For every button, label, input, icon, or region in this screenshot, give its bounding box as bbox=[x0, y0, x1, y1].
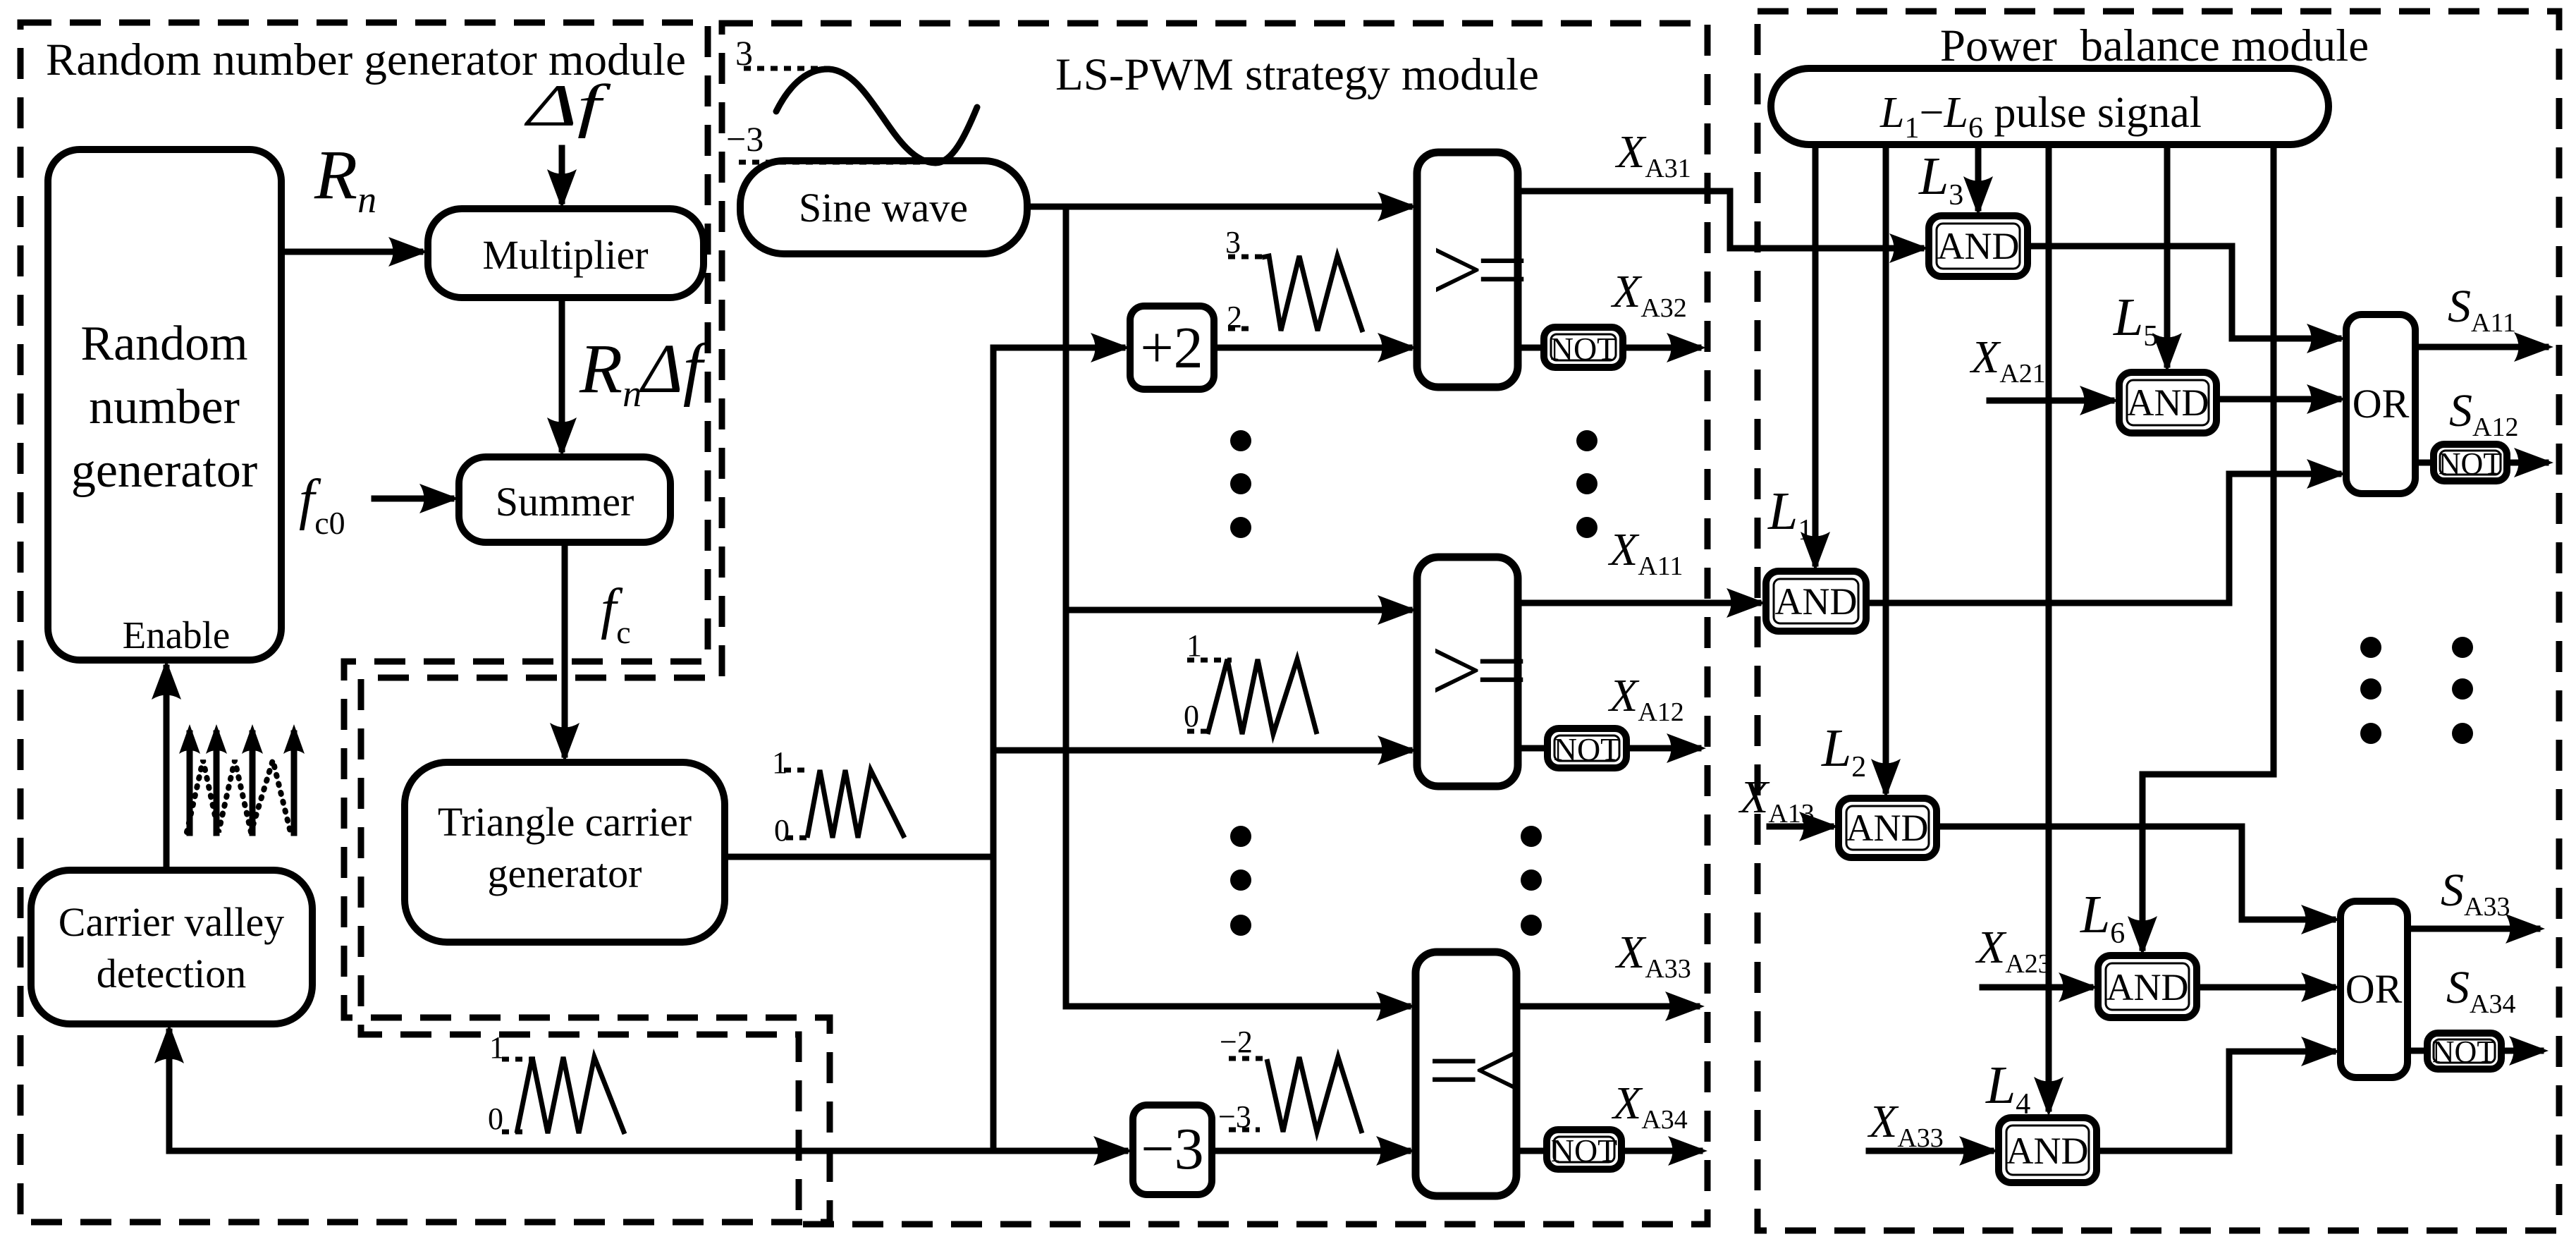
svg-text:=<: =< bbox=[1422, 1020, 1521, 1121]
svg-text:Carrier valley: Carrier valley bbox=[59, 899, 284, 945]
wire: L2 drop line bbox=[1871, 145, 1901, 798]
wire: OR 1 to NOT 4 bbox=[2415, 460, 2434, 466]
wire: OR 1 output SA11 bbox=[2415, 332, 2553, 362]
svg-text:Triangle carrier: Triangle carrier bbox=[438, 799, 692, 845]
wire: Multiplier to Summer bbox=[547, 298, 577, 457]
wire: NOT 4 output SA12 bbox=[2507, 448, 2553, 477]
wire: XA13 into AND L2 bbox=[1770, 812, 1839, 841]
wire: NOT 5 output SA34 bbox=[2501, 1036, 2549, 1066]
wire: Carrier valley detection up to Enable bbox=[152, 660, 181, 870]
wire: comparator 1 output XA31 with step bbox=[1518, 191, 1921, 248]
svg-text:>=: >= bbox=[1425, 620, 1523, 721]
svg-text:−3: −3 bbox=[1141, 1116, 1203, 1182]
block: L1-L6 pulse signal bbox=[1771, 68, 2329, 145]
svg-text:0: 0 bbox=[1184, 699, 1199, 733]
wire: AND L3 output to OR 1 input 1 bbox=[2028, 246, 2346, 353]
wire: OR 2 to NOT 5 bbox=[2408, 1048, 2427, 1054]
icon: carrier band -2..-3 bbox=[1218, 1025, 1362, 1134]
wire: comparator 3 output XA33 bbox=[1516, 991, 1705, 1021]
svg-text:AND: AND bbox=[1937, 225, 2020, 267]
wire: AND L2 output to OR 2 input 1 bbox=[1937, 826, 2341, 934]
wire: AND L1 output to OR 1 input 3 bbox=[1866, 459, 2346, 603]
module box: Power balance module (dashed outline) bbox=[1758, 11, 2559, 1231]
block: NOT 5 bbox=[2427, 1033, 2501, 1069]
svg-text:Summer: Summer bbox=[496, 479, 634, 525]
svg-text:AND: AND bbox=[2106, 966, 2189, 1008]
wire: carrier to comparator 2 lower input bbox=[993, 736, 1417, 765]
wire: feedback up into Carrier valley detection bbox=[154, 1024, 184, 1151]
wire: RNG output to Multiplier bbox=[281, 237, 428, 267]
svg-text:0: 0 bbox=[774, 813, 790, 848]
svg-text:AND: AND bbox=[2127, 382, 2209, 424]
svg-text:+2: +2 bbox=[1140, 315, 1203, 381]
wire: feedback into -3 block bbox=[1093, 1136, 1133, 1166]
svg-text:generator: generator bbox=[71, 444, 257, 498]
wire: L1 drop line bbox=[1801, 145, 1830, 571]
wire: AND L6 output to OR 2 input 2 bbox=[2197, 972, 2341, 1002]
wire: XA33 into AND L4 bbox=[1869, 1136, 1999, 1166]
block: NOT 4 bbox=[2434, 444, 2507, 481]
wire: L6 drop line with jog bbox=[2128, 145, 2274, 956]
svg-text:detection: detection bbox=[97, 951, 247, 996]
block: comparator 2 (>=) bbox=[1417, 557, 1523, 786]
wire: sine to comparator 3 upper input bbox=[1066, 991, 1416, 1021]
wire: delta-f arrow into Multiplier bbox=[547, 148, 577, 209]
block: AND gate L3 bbox=[1929, 216, 2028, 276]
svg-text:0: 0 bbox=[488, 1102, 503, 1136]
svg-text:L1−L6 pulse signal: L1−L6 pulse signal bbox=[1879, 89, 2202, 145]
wire: NOT 2 output XA12 bbox=[1626, 733, 1706, 763]
wire: -3 to comparator 3 lower input bbox=[1212, 1136, 1416, 1166]
svg-text:Enable: Enable bbox=[123, 614, 231, 657]
block: Sine wave bbox=[740, 161, 1027, 254]
wire: triangle carrier generator output bbox=[725, 854, 993, 860]
svg-text:>=: >= bbox=[1425, 219, 1524, 321]
svg-text:OR: OR bbox=[2353, 381, 2410, 427]
wire: Summer to Triangle carrier generator bbox=[550, 542, 579, 762]
node: ellipsis dots upper right column bbox=[1576, 430, 1597, 538]
block: AND gate L5 bbox=[2119, 372, 2216, 433]
wire: NOT 3 output XA34 bbox=[1621, 1136, 1707, 1166]
wire: fc0 arrow into Summer bbox=[374, 484, 459, 513]
block: Multiplier bbox=[428, 209, 704, 298]
wire: OR 2 output SA33 bbox=[2408, 914, 2545, 944]
block: NOT 1 bbox=[1544, 327, 1623, 367]
svg-text:Sine wave: Sine wave bbox=[799, 185, 968, 231]
block: comparator 1 (>=) bbox=[1417, 152, 1524, 387]
svg-text:AND: AND bbox=[1846, 807, 1929, 849]
svg-text:RnΔf: RnΔf bbox=[579, 329, 711, 415]
wire: AND L5 output to OR 1 input 2 bbox=[2216, 384, 2346, 414]
wire: comparator 3 to NOT 3 bbox=[1516, 1148, 1547, 1154]
icon: carrier band 3..2 bbox=[1225, 225, 1363, 334]
wire: +2 to comparator 1 lower input bbox=[1214, 333, 1417, 362]
wire: carrier distribution vertical bbox=[990, 348, 997, 1151]
wire: comparator 2 output XA11 bbox=[1518, 588, 1766, 618]
svg-text:Δf: Δf bbox=[524, 73, 611, 139]
wire: sine wave output to comparator 1 bbox=[1027, 192, 1417, 221]
block: comparator 3 (=<) bbox=[1416, 952, 1521, 1196]
icon: carrier band 1..0 bbox=[1184, 628, 1317, 734]
svg-text:−3: −3 bbox=[726, 119, 763, 159]
wire: L4 drop line bbox=[2034, 145, 2063, 1116]
svg-text:AND: AND bbox=[2006, 1130, 2089, 1172]
wire: L5 drop line bbox=[2152, 145, 2182, 372]
svg-text:generator: generator bbox=[488, 850, 642, 896]
node: ellipsis dots upper left column bbox=[1230, 430, 1251, 538]
svg-text:Multiplier: Multiplier bbox=[482, 232, 648, 278]
wire: XA21 into AND L5 bbox=[1989, 386, 2119, 415]
block: AND gate L4 bbox=[1999, 1118, 2097, 1183]
svg-text:NOT: NOT bbox=[1554, 731, 1621, 767]
svg-text:NOT: NOT bbox=[2432, 1035, 2496, 1069]
block: AND gate L1 bbox=[1766, 571, 1866, 631]
icon: dotted carrier wave with four rising arrows bbox=[179, 724, 305, 833]
module box: LS-PWM strategy module (dashed outline) bbox=[361, 23, 1707, 1224]
block: AND gate L6 bbox=[2098, 956, 2197, 1018]
block: OR gate 1 bbox=[2346, 315, 2415, 494]
wire: AND L4 output to OR 2 input 3 bbox=[2097, 1037, 2341, 1151]
node: ellipsis dots module C right column bbox=[2452, 637, 2473, 744]
wire: sine distribution vertical bbox=[1063, 207, 1069, 1006]
icon: sine reference wave with levels 3 and -3 bbox=[726, 33, 977, 163]
module box: Random number generator module (dashed outline) bbox=[20, 23, 830, 1222]
wire: carrier feedback line bbox=[169, 1148, 1125, 1154]
block: OR gate 2 bbox=[2341, 901, 2408, 1078]
node: ellipsis dots lower left column bbox=[1230, 826, 1251, 936]
svg-text:Power balance module: Power balance module bbox=[1940, 20, 2369, 71]
svg-text:NOT: NOT bbox=[1551, 1133, 1618, 1168]
svg-text:NOT: NOT bbox=[2439, 446, 2503, 481]
svg-text:number: number bbox=[89, 380, 240, 434]
svg-text:1: 1 bbox=[772, 745, 787, 780]
block: +2 offset bbox=[1130, 306, 1214, 389]
block: Carrier valley detection bbox=[31, 870, 312, 1024]
block: Triangle carrier generator bbox=[405, 762, 725, 942]
wire: NOT 1 output XA32 bbox=[1623, 333, 1706, 362]
block: Random number generator bbox=[48, 149, 281, 660]
svg-text:NOT: NOT bbox=[1550, 331, 1617, 367]
wire: comparator 2 to NOT 2 bbox=[1518, 745, 1547, 752]
node: ellipsis dots lower right column bbox=[1521, 826, 1542, 936]
wire: L3 drop line bbox=[1963, 145, 1993, 216]
svg-text:−2: −2 bbox=[1220, 1025, 1253, 1059]
block: NOT 3 bbox=[1547, 1130, 1621, 1169]
wire: carrier into +2 block bbox=[993, 333, 1130, 362]
icon: triangle wave at generator output bbox=[772, 745, 904, 848]
block: AND gate L2 bbox=[1839, 798, 1937, 858]
node: ellipsis dots module C left column bbox=[2360, 637, 2381, 744]
svg-text:AND: AND bbox=[1775, 580, 1858, 623]
block: NOT 2 bbox=[1547, 728, 1626, 768]
svg-text:OR: OR bbox=[2345, 966, 2403, 1012]
wire: comparator 1 to NOT 1 bbox=[1518, 345, 1544, 351]
svg-text:LS-PWM strategy module: LS-PWM strategy module bbox=[1055, 49, 1539, 100]
block: Summer bbox=[459, 457, 670, 542]
icon: small triangle wave on feedback line bbox=[488, 1030, 625, 1136]
wire: XA23 into AND L6 bbox=[1982, 972, 2098, 1002]
wire: sine to comparator 2 upper input bbox=[1066, 595, 1417, 625]
block: -3 offset bbox=[1133, 1105, 1212, 1195]
svg-text:Random: Random bbox=[80, 317, 247, 371]
